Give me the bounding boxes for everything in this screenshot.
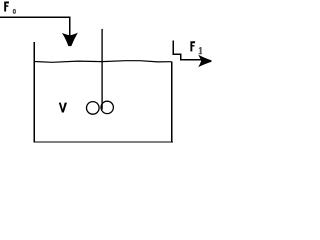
- outlet spout step vertical: [180, 53, 182, 60]
- tank left wall: [33, 42, 35, 143]
- stirrer shaft: [101, 29, 103, 110]
- impeller left blade (circle): [87, 102, 100, 115]
- tank right wall upper: [172, 41, 174, 55]
- feed arrowhead (down): [62, 33, 78, 46]
- outlet arrowhead (right): [198, 55, 211, 67]
- tank bottom: [34, 141, 173, 143]
- liquid surface (wavy): [34, 61, 171, 63]
- wire feed line horizontal: [0, 16, 70, 18]
- wire outlet line: [180, 59, 203, 61]
- tank right wall lower: [171, 62, 173, 143]
- label F1 (outlet flow): [190, 41, 202, 54]
- wire feed line vertical: [69, 17, 71, 36]
- outlet spout step horizontal: [173, 53, 182, 55]
- impeller right blade (circle): [101, 101, 113, 113]
- label V (volume): [59, 103, 67, 113]
- label F0 (feed flow): [4, 2, 15, 14]
